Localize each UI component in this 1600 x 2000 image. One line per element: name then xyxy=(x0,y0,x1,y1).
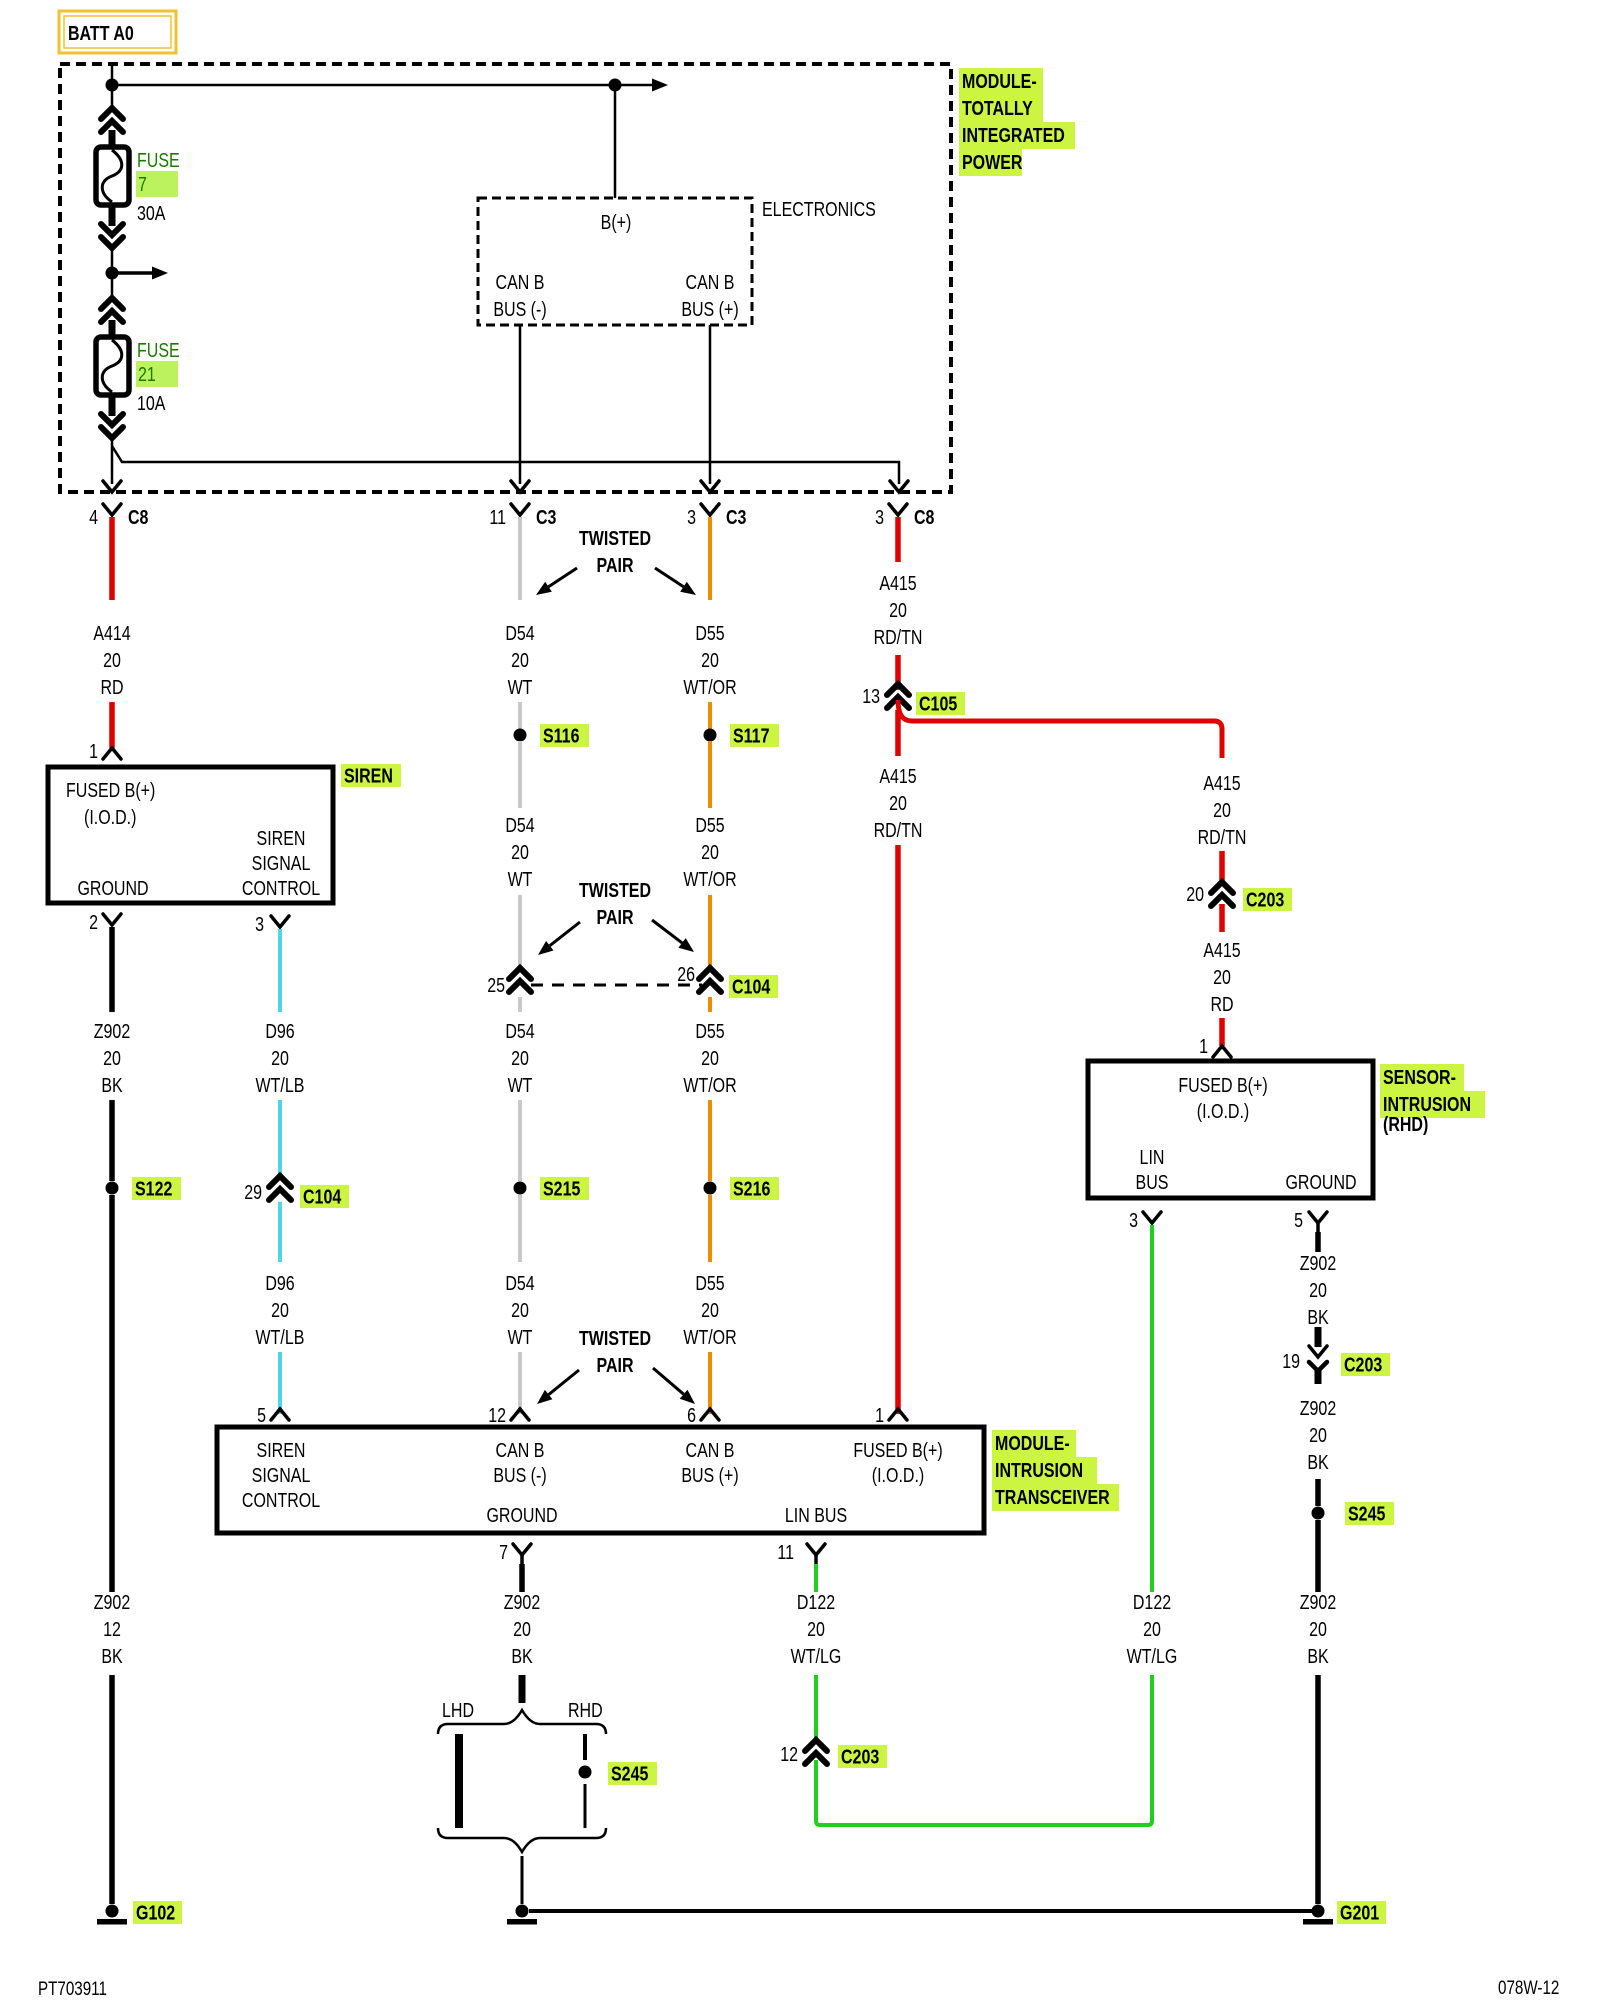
svg-text:20: 20 xyxy=(511,1299,529,1321)
svg-text:SIGNAL: SIGNAL xyxy=(252,1464,311,1486)
svg-text:10A: 10A xyxy=(137,392,166,414)
svg-text:G102: G102 xyxy=(136,1902,175,1924)
svg-text:RD/TN: RD/TN xyxy=(1198,826,1247,848)
svg-text:20: 20 xyxy=(701,1047,719,1069)
svg-text:20: 20 xyxy=(103,1047,121,1069)
svg-text:20: 20 xyxy=(701,1299,719,1321)
svg-text:11: 11 xyxy=(777,1541,794,1563)
svg-text:Z902: Z902 xyxy=(1300,1397,1336,1419)
svg-text:Z902: Z902 xyxy=(1300,1252,1336,1274)
svg-text:C8: C8 xyxy=(128,506,148,528)
svg-text:CAN B: CAN B xyxy=(496,1439,545,1461)
svg-text:(I.O.D.): (I.O.D.) xyxy=(1197,1100,1249,1122)
svg-text:D55: D55 xyxy=(695,814,724,836)
svg-text:FUSED B(+): FUSED B(+) xyxy=(853,1439,942,1461)
svg-text:C8: C8 xyxy=(914,506,934,528)
svg-text:TRANSCEIVER: TRANSCEIVER xyxy=(995,1486,1110,1508)
svg-text:D96: D96 xyxy=(265,1272,294,1294)
svg-text:B(+): B(+) xyxy=(601,211,632,233)
svg-text:WT: WT xyxy=(508,1074,533,1096)
svg-text:A415: A415 xyxy=(1203,939,1240,961)
svg-text:4: 4 xyxy=(89,506,98,528)
svg-text:WT/LB: WT/LB xyxy=(256,1074,305,1096)
svg-text:20: 20 xyxy=(1309,1424,1327,1446)
svg-text:C3: C3 xyxy=(536,506,556,528)
svg-text:S245: S245 xyxy=(611,1763,648,1785)
svg-text:INTRUSION: INTRUSION xyxy=(995,1459,1083,1481)
svg-text:5: 5 xyxy=(1294,1209,1303,1231)
svg-text:(I.O.D.): (I.O.D.) xyxy=(84,806,136,828)
svg-text:FUSE: FUSE xyxy=(137,149,180,171)
svg-text:S122: S122 xyxy=(135,1178,172,1200)
svg-text:BK: BK xyxy=(101,1074,122,1096)
svg-text:WT: WT xyxy=(508,676,533,698)
svg-text:12: 12 xyxy=(488,1404,506,1426)
svg-text:D122: D122 xyxy=(797,1591,835,1613)
svg-text:C104: C104 xyxy=(732,976,770,998)
svg-text:SIREN: SIREN xyxy=(257,827,306,849)
svg-text:D122: D122 xyxy=(1133,1591,1171,1613)
svg-text:S215: S215 xyxy=(543,1178,580,1200)
svg-text:A415: A415 xyxy=(879,765,916,787)
svg-text:GROUND: GROUND xyxy=(486,1504,557,1526)
svg-text:MODULE-: MODULE- xyxy=(995,1432,1070,1454)
svg-text:BUS (+): BUS (+) xyxy=(681,298,738,320)
svg-text:D54: D54 xyxy=(505,1272,534,1294)
svg-text:5: 5 xyxy=(257,1404,266,1426)
svg-text:C203: C203 xyxy=(1344,1354,1382,1376)
svg-text:ELECTRONICS: ELECTRONICS xyxy=(762,198,876,220)
svg-text:WT: WT xyxy=(508,868,533,890)
svg-text:12: 12 xyxy=(103,1618,121,1640)
svg-text:SIREN: SIREN xyxy=(344,765,393,787)
svg-text:S245: S245 xyxy=(1348,1503,1385,1525)
svg-text:20: 20 xyxy=(513,1618,531,1640)
svg-text:WT/OR: WT/OR xyxy=(683,676,736,698)
svg-text:PAIR: PAIR xyxy=(596,1354,633,1376)
svg-text:CAN B: CAN B xyxy=(496,271,545,293)
svg-text:BK: BK xyxy=(511,1645,532,1667)
svg-text:TOTALLY: TOTALLY xyxy=(962,97,1033,119)
svg-text:D96: D96 xyxy=(265,1020,294,1042)
svg-text:Z902: Z902 xyxy=(94,1591,130,1613)
svg-text:7: 7 xyxy=(138,173,147,195)
svg-text:CONTROL: CONTROL xyxy=(242,1489,320,1511)
svg-text:25: 25 xyxy=(487,974,505,996)
svg-text:BUS (-): BUS (-) xyxy=(493,1464,546,1486)
svg-text:30A: 30A xyxy=(137,202,166,224)
svg-text:WT/OR: WT/OR xyxy=(683,1074,736,1096)
svg-text:20: 20 xyxy=(1143,1618,1161,1640)
svg-text:INTRUSION: INTRUSION xyxy=(1383,1093,1471,1115)
svg-text:WT/LG: WT/LG xyxy=(791,1645,842,1667)
svg-text:GROUND: GROUND xyxy=(77,877,148,899)
svg-text:SENSOR-: SENSOR- xyxy=(1383,1066,1456,1088)
svg-text:BUS: BUS xyxy=(1136,1171,1169,1193)
svg-text:3: 3 xyxy=(875,506,884,528)
svg-text:S117: S117 xyxy=(733,725,769,747)
svg-text:D54: D54 xyxy=(505,622,534,644)
svg-text:GROUND: GROUND xyxy=(1285,1171,1356,1193)
svg-text:C104: C104 xyxy=(303,1186,341,1208)
svg-text:CAN B: CAN B xyxy=(686,271,735,293)
svg-text:BUS (+): BUS (+) xyxy=(681,1464,738,1486)
svg-text:C105: C105 xyxy=(919,693,957,715)
svg-text:3: 3 xyxy=(1129,1209,1138,1231)
svg-text:A415: A415 xyxy=(1203,772,1240,794)
svg-text:POWER: POWER xyxy=(962,151,1022,173)
svg-text:(I.O.D.): (I.O.D.) xyxy=(872,1464,924,1486)
svg-text:TWISTED: TWISTED xyxy=(579,879,651,901)
svg-text:20: 20 xyxy=(1309,1618,1327,1640)
svg-text:PAIR: PAIR xyxy=(596,554,633,576)
svg-text:BATT A0: BATT A0 xyxy=(68,22,134,44)
svg-text:3: 3 xyxy=(255,913,264,935)
svg-text:BK: BK xyxy=(1307,1451,1328,1473)
svg-text:RD/TN: RD/TN xyxy=(874,626,923,648)
svg-text:D54: D54 xyxy=(505,1020,534,1042)
svg-text:CAN B: CAN B xyxy=(686,1439,735,1461)
svg-text:C3: C3 xyxy=(726,506,746,528)
svg-text:Z902: Z902 xyxy=(504,1591,540,1613)
svg-text:FUSED B(+): FUSED B(+) xyxy=(1178,1074,1267,1096)
svg-text:20: 20 xyxy=(1213,799,1231,821)
svg-text:WT/LB: WT/LB xyxy=(256,1326,305,1348)
svg-text:26: 26 xyxy=(677,963,695,985)
svg-text:SIREN: SIREN xyxy=(257,1439,306,1461)
svg-text:MODULE-: MODULE- xyxy=(962,70,1037,92)
svg-text:20: 20 xyxy=(1186,883,1204,905)
svg-text:TWISTED: TWISTED xyxy=(579,1327,651,1349)
svg-text:RD: RD xyxy=(1210,993,1233,1015)
svg-text:TWISTED: TWISTED xyxy=(579,527,651,549)
svg-text:RD: RD xyxy=(100,676,123,698)
svg-text:LIN BUS: LIN BUS xyxy=(785,1504,847,1526)
svg-text:20: 20 xyxy=(511,841,529,863)
svg-text:WT: WT xyxy=(508,1326,533,1348)
svg-text:D54: D54 xyxy=(505,814,534,836)
svg-text:S216: S216 xyxy=(733,1178,770,1200)
svg-text:A415: A415 xyxy=(879,572,916,594)
svg-text:078W-12: 078W-12 xyxy=(1498,1976,1559,1998)
svg-text:20: 20 xyxy=(889,792,907,814)
svg-text:BUS (-): BUS (-) xyxy=(493,298,546,320)
svg-text:20: 20 xyxy=(103,649,121,671)
svg-text:20: 20 xyxy=(511,1047,529,1069)
svg-text:12: 12 xyxy=(780,1743,798,1765)
svg-text:D55: D55 xyxy=(695,622,724,644)
svg-text:D55: D55 xyxy=(695,1272,724,1294)
svg-text:PAIR: PAIR xyxy=(596,906,633,928)
svg-text:LHD: LHD xyxy=(442,1699,474,1721)
svg-text:S116: S116 xyxy=(543,725,579,747)
svg-text:20: 20 xyxy=(1309,1279,1327,1301)
svg-text:20: 20 xyxy=(271,1299,289,1321)
svg-text:LIN: LIN xyxy=(1140,1146,1165,1168)
svg-text:G201: G201 xyxy=(1340,1902,1379,1924)
svg-text:A414: A414 xyxy=(93,622,130,644)
svg-text:11: 11 xyxy=(489,506,506,528)
svg-text:2: 2 xyxy=(89,911,98,933)
svg-text:6: 6 xyxy=(687,1404,696,1426)
svg-text:20: 20 xyxy=(271,1047,289,1069)
svg-text:C203: C203 xyxy=(1246,889,1284,911)
svg-text:Z902: Z902 xyxy=(94,1020,130,1042)
svg-text:RD/TN: RD/TN xyxy=(874,819,923,841)
svg-text:BK: BK xyxy=(101,1645,122,1667)
svg-text:21: 21 xyxy=(138,363,156,385)
svg-text:WT/OR: WT/OR xyxy=(683,1326,736,1348)
svg-text:PT703911: PT703911 xyxy=(38,1977,107,1999)
svg-text:20: 20 xyxy=(1213,966,1231,988)
svg-text:3: 3 xyxy=(687,506,696,528)
svg-text:20: 20 xyxy=(511,649,529,671)
svg-text:7: 7 xyxy=(499,1541,508,1563)
svg-text:19: 19 xyxy=(1282,1350,1300,1372)
svg-text:(RHD): (RHD) xyxy=(1383,1113,1428,1135)
svg-text:RHD: RHD xyxy=(568,1699,603,1721)
svg-text:20: 20 xyxy=(807,1618,825,1640)
svg-text:BK: BK xyxy=(1307,1306,1328,1328)
svg-text:1: 1 xyxy=(1199,1035,1208,1057)
svg-text:20: 20 xyxy=(889,599,907,621)
svg-text:20: 20 xyxy=(701,649,719,671)
svg-text:Z902: Z902 xyxy=(1300,1591,1336,1613)
svg-text:29: 29 xyxy=(244,1181,262,1203)
svg-text:D55: D55 xyxy=(695,1020,724,1042)
svg-text:FUSED B(+): FUSED B(+) xyxy=(66,779,155,801)
svg-text:FUSE: FUSE xyxy=(137,339,180,361)
svg-text:1: 1 xyxy=(89,740,98,762)
svg-text:13: 13 xyxy=(862,685,880,707)
svg-text:WT/LG: WT/LG xyxy=(1127,1645,1178,1667)
svg-text:1: 1 xyxy=(875,1404,884,1426)
svg-text:BK: BK xyxy=(1307,1645,1328,1667)
svg-text:INTEGRATED: INTEGRATED xyxy=(962,124,1065,146)
svg-text:CONTROL: CONTROL xyxy=(242,877,320,899)
svg-text:SIGNAL: SIGNAL xyxy=(252,852,311,874)
svg-text:C203: C203 xyxy=(841,1746,879,1768)
svg-text:20: 20 xyxy=(701,841,719,863)
svg-text:WT/OR: WT/OR xyxy=(683,868,736,890)
